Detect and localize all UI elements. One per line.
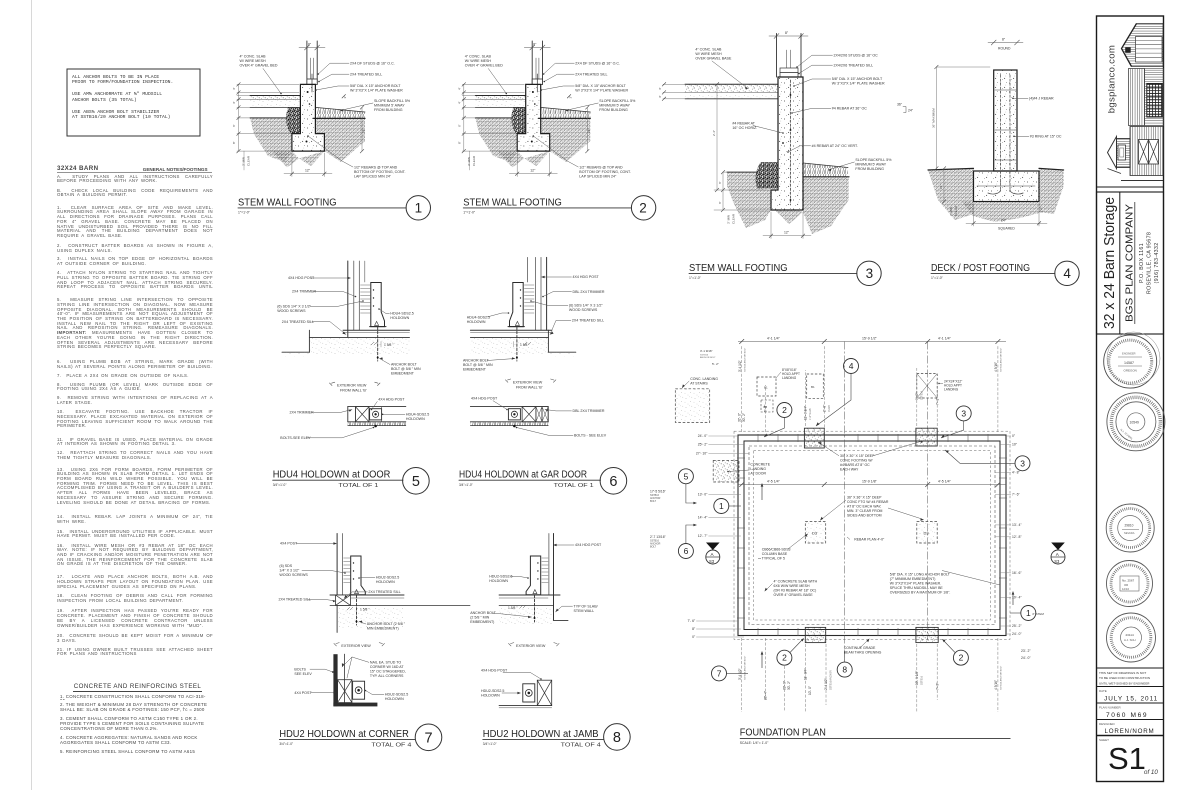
svg-text:14'- 4": 14'- 4" (698, 516, 708, 520)
svg-text:10'- 0": 10'- 0" (808, 686, 812, 695)
circled ref 2 bottom right (953, 650, 968, 665)
svg-text:14587: 14587 (1124, 361, 1134, 365)
dots on bracket (373, 289, 374, 290)
svg-text:8": 8" (232, 141, 236, 144)
svg-text:CONC FOOTING W/: CONC FOOTING W/ (840, 459, 872, 463)
svg-text:15'-9 1/2": 15'-9 1/2" (862, 337, 878, 341)
svg-text:23114: 23114 (1126, 633, 1134, 637)
svg-text:32 x 24 Barn Storage: 32 x 24 Barn Storage (1101, 197, 1118, 329)
top dimension line (738, 341, 1006, 343)
top wall pads (804, 428, 824, 448)
svg-text:W/ WIRE MESH: W/ WIRE MESH (695, 52, 722, 56)
svg-text:W/ 3"X3"X1/4" PLATE WASHER.: W/ 3"X3"X1/4" PLATE WASHER. (890, 582, 941, 586)
svg-text:SLOPE BACKFILL 5%: SLOPE BACKFILL 5% (855, 158, 892, 162)
svg-text:4X4 POST: 4X4 POST (294, 691, 312, 695)
svg-text:24": 24" (1001, 218, 1007, 222)
svg-text:5'- 2": 5'- 2" (712, 362, 719, 366)
svg-text:HOLDOWN: HOLDOWN (376, 580, 395, 584)
svg-text:HOLDOWN: HOLDOWN (390, 316, 409, 320)
rotated anchor dim labels bottom (738, 649, 1031, 700)
svg-text:TYP. ALL CORNERS: TYP. ALL CORNERS (370, 674, 404, 678)
svg-text:NEVADA: NEVADA (1124, 531, 1135, 535)
svg-text:FOUNDATION PLAN: FOUNDATION PLAN (740, 728, 826, 739)
earth V below footing (272, 151, 324, 167)
svg-text:4X4 HDG POST: 4X4 HDG POST (378, 398, 405, 402)
svg-text:3: 3 (961, 408, 966, 418)
svg-text:5/8" DIA. X 15" ANCHOR BOLT: 5/8" DIA. X 15" ANCHOR BOLT (350, 84, 401, 88)
svg-text:HDU4-SDS2.5: HDU4-SDS2.5 (390, 312, 413, 316)
svg-text:CURB: CURB (828, 405, 831, 412)
svg-text:3/4"=1'-0": 3/4"=1'-0" (273, 483, 287, 487)
svg-text:11'- 3/4": 11'- 3/4" (803, 669, 807, 680)
svg-text:24": 24" (908, 109, 914, 113)
svg-text:W/ 3"X3"X 1/4" PLATE WASHER: W/ 3"X3"X 1/4" PLATE WASHER (350, 89, 403, 93)
screw hashes (344, 558, 350, 583)
earth left (727, 172, 771, 228)
svg-text:SSTB16 ANCHOR BOLT: SSTB16 ANCHOR BOLT (744, 347, 747, 372)
svg-text:5: 5 (412, 474, 420, 490)
svg-text:CONTINUE GRADE: CONTINUE GRADE (844, 646, 876, 650)
svg-text:MINIMUM 5' AWAY: MINIMUM 5' AWAY (374, 104, 405, 108)
left dim 36" max (935, 67, 937, 168)
svg-text:FROM WALL 'B': FROM WALL 'B' (340, 389, 367, 393)
vertical rebar dashed (790, 80, 792, 205)
svg-text:3/4"=1'-0": 3/4"=1'-0" (483, 742, 497, 746)
svg-text:7: 7 (425, 731, 433, 747)
svg-text:2'-7 13/16": 2'-7 13/16" (650, 535, 667, 539)
svg-text:BGS PLAN COMPANY: BGS PLAN COMPANY (1125, 204, 1136, 322)
earth right (803, 177, 849, 234)
slab at left (250, 96, 300, 99)
left general notes text (0, 0, 1185, 1)
svg-text:CLEAR: CLEAR (732, 213, 736, 224)
plan view (470, 406, 548, 408)
ground (499, 606, 553, 626)
svg-text:CONC. LANDING: CONC. LANDING (690, 377, 718, 381)
svg-text:(6) SDS 1/4" X 3 1/2": (6) SDS 1/4" X 3 1/2" (569, 304, 603, 308)
svg-text:HDU2 HOLDOWN at JAMB: HDU2 HOLDOWN at JAMB (483, 729, 599, 740)
svg-text:12'- 8": 12'- 8" (1012, 535, 1022, 539)
svg-text:EACH WAY: EACH WAY (840, 468, 859, 472)
svg-text:1 5/8 ": 1 5/8 " (384, 343, 394, 347)
concrete landing at door (left wall) (713, 461, 739, 483)
svg-text:5: 5 (684, 471, 689, 481)
svg-text:EXTERIOR VIEW: EXTERIOR VIEW (341, 644, 371, 648)
svg-text:2: 2 (639, 201, 647, 216)
svg-text:LANDING: LANDING (750, 467, 766, 471)
svg-text:STEM WALL: STEM WALL (574, 609, 595, 613)
gambrel roof panel with hatch (1122, 24, 1164, 67)
circled ref 7 bottom left (712, 666, 727, 681)
backfill slope band right (315, 107, 365, 118)
1 5/8 dim (380, 342, 382, 348)
1 5/8 dim (513, 342, 515, 348)
concrete & reinforcing steel heading (73, 683, 202, 692)
svg-text:A: A (711, 552, 715, 557)
bottom dim 24" squared (973, 204, 975, 227)
left dim lines (237, 84, 299, 151)
rebar dots (307, 91, 309, 93)
svg-text:CLEAR: CLEAR (247, 155, 251, 166)
date row (1097, 686, 1164, 688)
svg-text:4 3/16": 4 3/16" (994, 680, 998, 690)
ground line + earth (928, 168, 974, 220)
svg-text:1: 1 (1026, 608, 1031, 618)
svg-text:SPLICE THRU MUDSILL MAY BE: SPLICE THRU MUDSILL MAY BE (890, 586, 944, 590)
svg-text:24'- 0": 24'- 0" (1012, 632, 1022, 636)
faint sheet fold line left (31, 0, 33, 790)
svg-text:3" MIN: 3" MIN (727, 215, 731, 224)
earth below footing (775, 210, 803, 224)
svg-text:DBL 2X4 TRIMMER: DBL 2X4 TRIMMER (573, 290, 605, 294)
svg-text:4 3/16": 4 3/16" (994, 362, 998, 372)
svg-text:36" MAXIMUM: 36" MAXIMUM (932, 108, 936, 128)
holdown bracket (371, 283, 385, 327)
svg-text:15'-9 1/8": 15'-9 1/8" (862, 480, 878, 484)
svg-text:#4 REBAR AT 24" OC VERT.: #4 REBAR AT 24" OC VERT. (812, 144, 858, 148)
svg-text:No. 2567: No. 2567 (1122, 579, 1135, 583)
post lines (527, 257, 529, 282)
disclaimer row (1097, 667, 1164, 669)
svg-text:EMBEDMENT: EMBEDMENT (391, 372, 415, 376)
svg-text:AT 8" OC EACH WAY,: AT 8" OC EACH WAY, (847, 505, 881, 509)
svg-text:25'- 2": 25'- 2" (698, 443, 708, 447)
dim 8" top (769, 35, 808, 37)
svg-text:D3: D3 (812, 531, 818, 536)
svg-text:28'- 4": 28'- 4" (764, 691, 768, 700)
right dim labels (1012, 434, 1022, 636)
svg-text:3" MIN: 3" MIN (242, 157, 246, 166)
gravel pocket (755, 162, 778, 189)
detail 2: stem wall footing (copy) (457, 41, 656, 220)
centerline dashed verticals (844, 342, 846, 664)
long wall with siding (1130, 127, 1163, 176)
ground speckle (470, 338, 548, 356)
svg-text:8": 8" (1002, 38, 1006, 42)
svg-text:19'- 4": 19'- 4" (1012, 596, 1022, 600)
svg-text:7'- 6": 7'- 6" (1012, 493, 1020, 497)
svg-text:11'- 3 1/4": 11'- 3 1/4" (803, 406, 807, 420)
small hold down pads above top wall (757, 377, 776, 396)
svg-text:4X4 HDG POST: 4X4 HDG POST (573, 275, 600, 279)
svg-text:HOLDOWN: HOLDOWN (406, 417, 425, 421)
svg-text:4": 4" (232, 101, 236, 104)
svg-text:2'- 0": 2'- 0" (822, 405, 826, 412)
svg-text:15" OC STAGGERED,: 15" OC STAGGERED, (370, 670, 406, 674)
bottom wall pads (805, 627, 825, 642)
plan view (348, 406, 406, 408)
svg-text:BOLT: BOLT (650, 500, 657, 503)
detail 6: HDU4 holdown at gar door (459, 257, 627, 494)
svg-text:8": 8" (785, 31, 789, 35)
conc landing at stairs (dashed, outside left top) (675, 389, 709, 423)
svg-text:3: 3 (1020, 458, 1025, 468)
svg-text:3": 3" (343, 96, 347, 99)
svg-text:bgsplanco.com: bgsplanco.com (1107, 45, 1118, 113)
svg-text:6: 6 (609, 474, 617, 490)
svg-text:B1: B1 (764, 386, 768, 390)
post lines (347, 261, 349, 337)
svg-text:BOLT @ 5/8 " MIN: BOLT @ 5/8 " MIN (391, 367, 421, 371)
svg-text:HDU4 HOLDOWN at GAR DOOR: HDU4 HOLDOWN at GAR DOOR (459, 470, 587, 481)
svg-text:ANCHOR BOLT (2 5/8 ": ANCHOR BOLT (2 5/8 " (367, 622, 406, 626)
svg-text:5/8" DIA. X 15" ANCHOR BOLT: 5/8" DIA. X 15" ANCHOR BOLT (832, 77, 883, 81)
svg-text:FROM WALL 'B': FROM WALL 'B' (516, 385, 543, 389)
crosshatch window (1147, 84, 1163, 118)
stud wall above (306, 41, 308, 84)
D3 pad left (805, 522, 825, 543)
svg-text:18": 18" (362, 129, 366, 133)
svg-text:WOOD SCREWS: WOOD SCREWS (569, 308, 598, 312)
svg-text:EXTERIOR VIEW: EXTERIOR VIEW (337, 384, 367, 388)
mid band: wood siding streaks (1129, 69, 1145, 126)
svg-text:25'- 2": 25'- 2" (1012, 624, 1022, 628)
svg-text:W/ 3"X3"X 1/4" PLATE WASHER: W/ 3"X3"X 1/4" PLATE WASHER (832, 82, 885, 86)
svg-text:7: 7 (717, 668, 722, 678)
stamp 1 Oregon (1104, 332, 1160, 388)
svg-text:EXTERIOR VIEW: EXTERIOR VIEW (516, 644, 546, 648)
svg-text:DESIGNED: DESIGNED (1099, 722, 1116, 726)
svg-text:7'- 6": 7'- 6" (687, 619, 695, 623)
sill with X box (330, 594, 404, 596)
svg-text:4: 4 (1063, 266, 1071, 281)
svg-text:5/8" DIA. X 15" LONG ANCHOR BO: 5/8" DIA. X 15" LONG ANCHOR BOLT (890, 573, 951, 577)
svg-text:2X4 TREATED SILL: 2X4 TREATED SILL (368, 590, 400, 594)
svg-text:LOREN/NORM: LOREN/NORM (1105, 728, 1155, 735)
svg-text:ENGINEER: ENGINEER (1122, 352, 1136, 356)
svg-text:30'- 2": 30'- 2" (787, 681, 791, 690)
stamp 4 (1107, 561, 1153, 607)
svg-text:4": 4" (658, 95, 662, 98)
svg-text:HOLDOWN: HOLDOWN (467, 320, 486, 324)
svg-text:3/4"=1'-0": 3/4"=1'-0" (459, 483, 473, 487)
svg-text:3/4"=1'-0": 3/4"=1'-0" (279, 742, 293, 746)
svg-text:2X4 TRIMMER: 2X4 TRIMMER (290, 411, 315, 415)
svg-text:SSTB16 ANCHOR BOLT: SSTB16 ANCHOR BOLT (1000, 665, 1003, 690)
svg-text:10": 10" (1012, 443, 1018, 447)
backfill band right (803, 163, 848, 177)
svg-text:P.O. BOX 1161: P.O. BOX 1161 (1139, 243, 1145, 283)
svg-text:PLAN NUMBER: PLAN NUMBER (1099, 705, 1122, 709)
svg-text:ROUND: ROUND (998, 47, 1011, 51)
svg-text:4X4 POST: 4X4 POST (280, 542, 298, 546)
left dim labels (687, 434, 708, 639)
svg-text:BOLT: BOLT (650, 546, 657, 549)
svg-text:MINIMUM 5' AWAY: MINIMUM 5' AWAY (855, 163, 886, 167)
logo box divider (1097, 186, 1164, 188)
svg-text:2X4 TREATED SILL: 2X4 TREATED SILL (282, 320, 314, 324)
svg-text:S1: S1 (1108, 741, 1146, 776)
left slab dims (663, 84, 685, 99)
svg-text:BEAM THRU OPENING: BEAM THRU OPENING (844, 651, 882, 655)
svg-text:TO BE USED FOR CONSTRUCTION: TO BE USED FOR CONSTRUCTION (1099, 676, 1150, 680)
screw hash marks (361, 285, 371, 313)
svg-text:MIN. 3" CLEAR FROM: MIN. 3" CLEAR FROM (847, 509, 883, 513)
bottom dim 12" (770, 212, 772, 239)
svg-text:REBAR PLAN 4'-0": REBAR PLAN 4'-0" (854, 538, 885, 542)
anchor bolt dashed (516, 327, 518, 361)
svg-text:LANDING: LANDING (782, 376, 797, 380)
svg-text:DATE: DATE (1099, 689, 1107, 693)
svg-text:36" X 36" X 15" DEEP: 36" X 36" X 15" DEEP (847, 496, 882, 500)
svg-text:TOTAL OF 1: TOTAL OF 1 (338, 483, 378, 489)
svg-text:6": 6" (232, 124, 236, 127)
svg-text:B1: B1 (811, 385, 815, 389)
circled ref 2 bottom left (777, 650, 792, 665)
anchor box text (72, 75, 198, 122)
svg-text:ANCHOR BOLT: ANCHOR BOLT (463, 359, 489, 363)
svg-text:1 5/8 ": 1 5/8 " (508, 606, 518, 610)
svg-text:12/10: 12/10 (1122, 587, 1129, 591)
svg-text:TOTAL OF 4: TOTAL OF 4 (561, 742, 602, 748)
svg-text:ANCHOR BOLT: ANCHOR BOLT (700, 356, 716, 359)
gravel pocket (286, 107, 300, 133)
svg-text:4'-5 1/4": 4'-5 1/4" (767, 480, 781, 484)
D3 pad right (917, 522, 937, 543)
svg-text:3: 3 (866, 266, 874, 281)
bracket (351, 556, 366, 595)
svg-text:0": 0" (1012, 434, 1016, 438)
circled ref 1 left (714, 499, 729, 514)
designed row (1097, 719, 1164, 721)
svg-text:12'- 7": 12'- 7" (698, 534, 708, 538)
svg-text:OREGON: OREGON (1124, 369, 1137, 373)
svg-text:2X4 DF STUDS @ 16" O.C.: 2X4 DF STUDS @ 16" O.C. (350, 62, 395, 66)
sill lines (470, 329, 551, 331)
svg-text:4: 4 (849, 361, 854, 371)
svg-text:FROM BUILDING: FROM BUILDING (374, 108, 403, 112)
X pad above right (917, 374, 937, 399)
detail 4: deck/post footing (928, 38, 1079, 286)
sill plate (307, 79, 317, 84)
svg-text:1"=1'-0": 1"=1'-0" (931, 276, 944, 280)
svg-text:4" CONC. SLAB: 4" CONC. SLAB (695, 48, 722, 52)
svg-text:(7" MINIMUM EMBEDMENT): (7" MINIMUM EMBEDMENT) (890, 577, 936, 581)
svg-text:17'-5 5/16": 17'-5 5/16" (650, 489, 667, 493)
svg-text:30" X 30" X 15" DEEP: 30" X 30" X 15" DEEP (840, 454, 875, 458)
svg-text:AT STAIRS: AT STAIRS (690, 381, 708, 385)
svg-text:A.J. SCH: A.J. SCH (1124, 638, 1136, 642)
svg-text:HOLDOWN: HOLDOWN (481, 694, 500, 698)
svg-text:#4 BARS AT 8" OC: #4 BARS AT 8" OC (840, 463, 870, 467)
svg-text:of 10: of 10 (1144, 769, 1158, 776)
extension dashed lines top (742, 345, 998, 432)
detail 8: HDU2 holdown at jamb (470, 534, 630, 751)
foundation plan walls (738, 435, 1006, 636)
bottom dim 12" (291, 153, 293, 177)
svg-text:HDU4-SDS2.5: HDU4-SDS2.5 (406, 413, 429, 417)
svg-text:12": 12" (305, 169, 311, 173)
svg-text:EMBEDMENT): EMBEDMENT) (470, 620, 494, 624)
svg-text:SSTB16: SSTB16 (920, 390, 923, 400)
footing dashed rings (734, 431, 1010, 639)
detail 1: stem wall footing (232, 41, 430, 220)
footing (974, 171, 1040, 202)
svg-text:12": 12" (784, 231, 790, 235)
circled ref 2 top (777, 403, 792, 418)
svg-text:2X4 TRIMMER: 2X4 TRIMMER (292, 290, 317, 294)
svg-text:SQUARED: SQUARED (998, 227, 1015, 231)
svg-text:2: 2 (782, 405, 787, 415)
svg-text:EMBEDMENT: EMBEDMENT (463, 368, 487, 372)
anchor bolt ticks along walls (737, 434, 1007, 636)
project title box (1097, 192, 1164, 334)
svg-text:LANDING: LANDING (944, 387, 959, 391)
svg-text:16" OC HORIZ.: 16" OC HORIZ. (732, 126, 757, 130)
left dim 2'-4" (716, 84, 718, 190)
svg-text:8": 8" (692, 627, 696, 631)
svg-text:STEM WALL FOOTING: STEM WALL FOOTING (689, 263, 788, 274)
12" dim (943, 168, 945, 201)
svg-text:TYP OF SLAB/: TYP OF SLAB/ (574, 604, 598, 608)
anchor bolt dashed (377, 327, 379, 361)
svg-text:4X4 HDG POST: 4X4 HDG POST (481, 668, 508, 672)
dim 8" top (299, 47, 325, 49)
svg-text:(6) SDS: (6) SDS (279, 564, 292, 568)
svg-text:ROSEVILLE, CA 95678: ROSEVILLE, CA 95678 (1147, 232, 1153, 294)
svg-text:OVER GRAVEL BASE: OVER GRAVEL BASE (695, 57, 732, 61)
svg-text:HDU2-SDS2.5: HDU2-SDS2.5 (489, 575, 512, 579)
concrete stem + footing (771, 77, 803, 210)
svg-text:24'- 0": 24'- 0" (1021, 656, 1031, 660)
svg-text:#3 RING AT 15" OC: #3 RING AT 15" OC (1030, 135, 1062, 139)
post lines (336, 534, 338, 606)
svg-text:1/4" X 3 1/2": 1/4" X 3 1/2" (279, 569, 300, 573)
svg-text:2X4/2X6 STUDS @ 16" OC: 2X4/2X6 STUDS @ 16" OC (834, 54, 879, 58)
svg-text:CONCRETE: CONCRETE (750, 463, 770, 467)
svg-text:UNTIL WET-SIGNED BY ENGINEER: UNTIL WET-SIGNED BY ENGINEER (1099, 681, 1150, 685)
extension dashed lines bottom (742, 638, 998, 712)
svg-text:SSTB16: SSTB16 (700, 355, 709, 357)
slab at left (685, 85, 778, 93)
svg-text:BOLTS: BOLTS (294, 667, 306, 671)
svg-text:#4 REBAR AT: #4 REBAR AT (732, 122, 755, 126)
svg-text:30'- 2": 30'- 2" (742, 413, 746, 422)
svg-text:36": 36" (897, 103, 903, 107)
svg-text:HDU4 HOLDOWN at DOOR: HDU4 HOLDOWN at DOOR (273, 470, 391, 481)
svg-text:4" CONCRETE SLAB WITH: 4" CONCRETE SLAB WITH (774, 580, 818, 584)
svg-text:4'-1 1/4": 4'-1 1/4" (938, 337, 952, 341)
svg-text:OVER 4" GRAVEL BED: OVER 4" GRAVEL BED (240, 64, 278, 68)
post (994, 70, 1017, 171)
detail 3: stem wall footing tall (658, 31, 914, 285)
svg-text:#4 REBAR AT 36" OC: #4 REBAR AT 36" OC (832, 107, 868, 111)
svg-text:4X4 HDG POST: 4X4 HDG POST (575, 543, 602, 547)
svg-text:TOTAL OF 1: TOTAL OF 1 (554, 483, 594, 489)
svg-text:13'- 0": 13'- 0" (698, 493, 708, 497)
svg-text:ANCHOR BOLT: ANCHOR BOLT (391, 363, 417, 367)
title block outer border (1097, 16, 1164, 782)
svg-text:2X4/2X6 TREATED SILL: 2X4/2X6 TREATED SILL (834, 64, 874, 68)
svg-text:HDU2-SDS2.5: HDU2-SDS2.5 (376, 576, 399, 580)
svg-text:4": 4" (232, 87, 236, 90)
svg-text:(4)#4 J REBAR: (4)#4 J REBAR (1029, 97, 1054, 101)
svg-text:3" MIN: 3" MIN (949, 207, 953, 216)
svg-text:SEE ELEV: SEE ELEV (294, 672, 312, 676)
sheet row (1097, 735, 1164, 737)
svg-text:D3: D3 (924, 531, 930, 536)
svg-text:1"=1'-0": 1"=1'-0" (689, 276, 702, 280)
svg-text:HDU4-SDS2.5: HDU4-SDS2.5 (467, 316, 490, 320)
svg-text:1: 1 (719, 501, 724, 511)
svg-text:1 5/8 ": 1 5/8 " (360, 608, 370, 612)
svg-text:9'- 2": 9'- 2" (915, 393, 919, 400)
svg-text:THIS SET OF DRAWINGS IS NOT: THIS SET OF DRAWINGS IS NOT (1099, 671, 1146, 675)
left lower dims (723, 171, 727, 173)
svg-text:1: 1 (415, 201, 423, 216)
svg-text:32'- 0": 32'- 0" (783, 681, 787, 690)
svg-text:8": 8" (308, 43, 312, 47)
